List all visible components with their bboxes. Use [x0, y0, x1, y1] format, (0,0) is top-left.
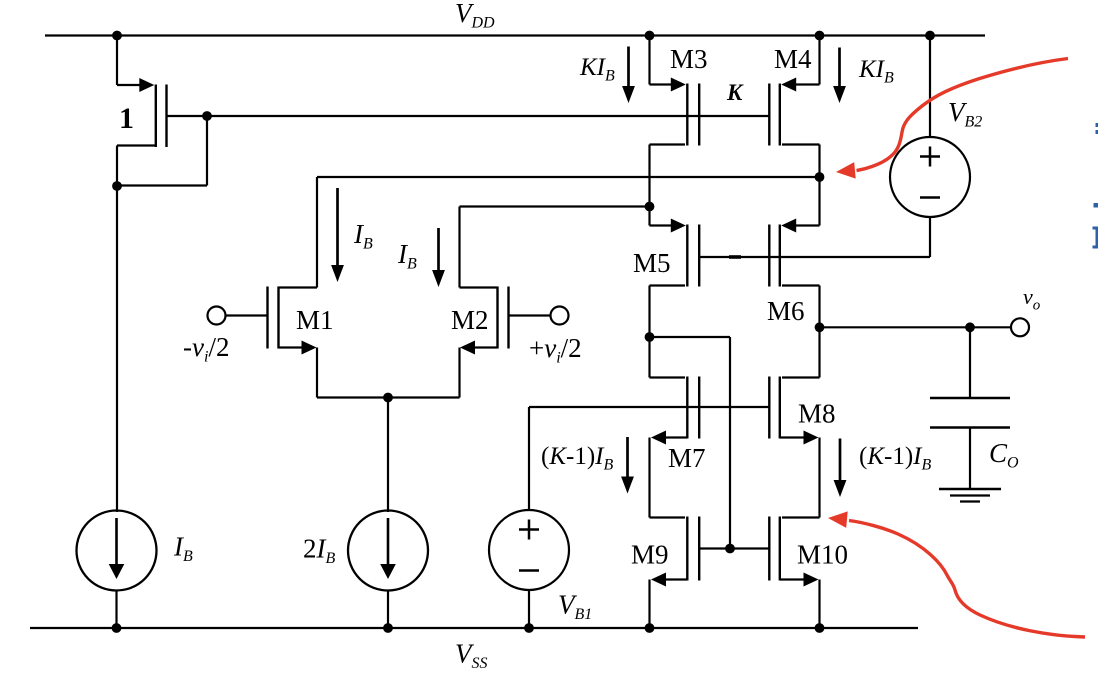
svg-text:IB: IB: [397, 239, 417, 273]
svg-text:VDD: VDD: [455, 0, 495, 32]
svg-text:(K-1)IB: (K-1)IB: [859, 443, 932, 474]
svg-text:M7: M7: [668, 443, 706, 473]
svg-text:KIB: KIB: [858, 56, 894, 87]
svg-text:M1: M1: [296, 305, 334, 335]
svg-text:VB2: VB2: [948, 97, 982, 131]
svg-text:VSS: VSS: [455, 639, 488, 673]
svg-text:K: K: [726, 80, 744, 105]
svg-text:vo: vo: [1023, 284, 1041, 314]
svg-text:-vi/2: -vi/2: [183, 332, 229, 366]
svg-text:(K-1)IB: (K-1)IB: [541, 443, 614, 474]
svg-text:2IB: 2IB: [303, 534, 336, 568]
svg-text:M3: M3: [670, 44, 708, 74]
svg-text:M8: M8: [798, 399, 836, 429]
svg-text:+vi/2: +vi/2: [529, 333, 582, 367]
svg-text:M4: M4: [774, 44, 812, 74]
svg-text:IB: IB: [173, 532, 193, 566]
svg-text:KIB: KIB: [579, 54, 615, 85]
svg-text:M9: M9: [631, 540, 669, 570]
svg-text:IB: IB: [353, 219, 373, 253]
svg-text:M10: M10: [797, 540, 848, 570]
svg-text:VB1: VB1: [558, 590, 592, 624]
svg-text:CO: CO: [989, 438, 1019, 472]
svg-text:M5: M5: [633, 248, 671, 278]
svg-text:M2: M2: [451, 305, 489, 335]
svg-text:1: 1: [119, 102, 134, 135]
svg-text:M6: M6: [767, 296, 805, 326]
